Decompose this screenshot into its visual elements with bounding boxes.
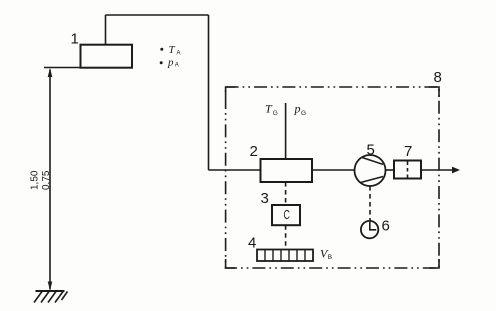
wire into box 2	[209, 169, 261, 171]
svg-text:G: G	[301, 110, 306, 117]
svg-text:4: 4	[248, 235, 256, 252]
svg-text:G: G	[273, 110, 278, 117]
svg-text:1,50: 1,50	[30, 170, 41, 190]
svg-text:2: 2	[250, 143, 258, 160]
svg-text:B: B	[328, 254, 332, 261]
gas meter 6	[361, 221, 378, 238]
svg-text:6: 6	[382, 218, 390, 235]
heater bar 4	[257, 250, 313, 262]
sensor line above box 2	[285, 103, 287, 159]
box 7 (filter)	[394, 161, 421, 179]
svg-text:5: 5	[367, 142, 375, 159]
enclosure corner strokes	[226, 87, 439, 268]
wire down into enclosure	[208, 15, 210, 170]
svg-text:C: C	[284, 208, 290, 222]
svg-text:7: 7	[404, 143, 412, 160]
svg-text:T: T	[169, 44, 176, 56]
pipe box 2 to pump 5	[312, 169, 355, 171]
svg-text:3: 3	[261, 190, 269, 207]
wire overhead horizontal run	[106, 14, 209, 16]
box 3 (controller)	[272, 205, 300, 225]
svg-text:p: p	[167, 57, 174, 69]
wire from box 1 top up	[105, 15, 107, 45]
svg-text:A: A	[177, 51, 181, 57]
svg-text:8: 8	[434, 69, 442, 86]
svg-text:T: T	[265, 102, 273, 116]
svg-text:1: 1	[71, 31, 79, 48]
enclosure 8 dashed boundary	[226, 87, 439, 268]
svg-text:A: A	[175, 63, 179, 69]
dimension arrow up	[48, 68, 53, 77]
mast arm line	[44, 67, 81, 69]
dashed link pump 5 to meter 6	[369, 186, 371, 221]
box 1 (sampling probe)	[81, 45, 133, 68]
dimension line	[49, 70, 51, 290]
pump 5	[355, 155, 386, 186]
svg-text:p: p	[294, 102, 301, 116]
dashed link box 3 to heater bar 4	[285, 225, 287, 249]
bullet for p_A	[160, 61, 163, 64]
dimension arrow down	[48, 282, 53, 291]
ground line	[36, 290, 65, 292]
ground hatching	[34, 292, 68, 303]
svg-text:0,75: 0,75	[41, 170, 52, 190]
pipe pump 5 to filter 7	[386, 169, 395, 171]
dashed link box 2 to box 3	[285, 182, 287, 205]
outlet pipe	[421, 169, 453, 171]
bullet for T_A	[160, 48, 163, 51]
box 2 (gas conditioning unit)	[261, 159, 313, 182]
outlet arrow	[452, 167, 460, 174]
